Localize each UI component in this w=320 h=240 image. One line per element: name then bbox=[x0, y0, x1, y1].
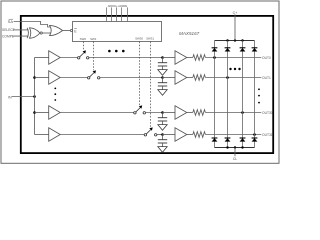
clamp rail bottom bbox=[215, 147, 255, 149]
junction hold cap row4 bbox=[161, 133, 164, 136]
resistor R2 bbox=[187, 75, 261, 81]
hold capacitor C1 bbox=[158, 58, 167, 70]
wire switch to hold cap row2 bbox=[100, 77, 163, 79]
buffer B2 bbox=[175, 71, 187, 85]
wire switch to hold cap row4 bbox=[157, 134, 163, 136]
wire C+ tap bbox=[234, 14, 236, 40]
wire cap to buffer B3 bbox=[163, 112, 176, 114]
svg-text:ADDRA–ADDRE: ADDRA–ADDRE bbox=[108, 4, 128, 8]
wire buffer A1 to switch bbox=[60, 57, 77, 59]
hold capacitor C4 bbox=[158, 135, 167, 147]
junction rail bottom v2 bbox=[226, 146, 228, 148]
wire IN to bus bbox=[12, 96, 35, 98]
clamp column 3 bbox=[242, 41, 244, 148]
junction output row1 bbox=[213, 56, 216, 59]
clamp column 1 bbox=[214, 41, 216, 148]
pin E label bbox=[74, 29, 77, 34]
resistor R1 bbox=[187, 55, 261, 61]
svg-text:C+: C+ bbox=[233, 11, 238, 15]
wire CL tap bbox=[234, 148, 236, 157]
wire bus to buffer A1 bbox=[35, 57, 49, 59]
diode D1 top bbox=[212, 48, 218, 52]
clamp column 4 bbox=[254, 41, 256, 148]
svg-text:OUT0: OUT0 bbox=[262, 56, 271, 60]
inverter bubble at box enable bbox=[70, 29, 72, 31]
wire cap to buffer B2 bbox=[163, 77, 176, 79]
svg-text:OUT31: OUT31 bbox=[262, 133, 273, 137]
wire buffer A4 to switch bbox=[60, 134, 144, 136]
buffer A4 bbox=[49, 128, 61, 142]
page frame bbox=[1, 1, 279, 163]
junction IN bus bbox=[33, 95, 36, 98]
junction output row2 bbox=[226, 76, 229, 79]
junction output row4 bbox=[253, 133, 256, 136]
svg-text:IN: IN bbox=[8, 95, 12, 99]
buffer B1 bbox=[175, 51, 187, 65]
wire input bus bbox=[34, 58, 36, 135]
xnor gate U1 bbox=[27, 28, 42, 38]
buffer A2 bbox=[49, 71, 61, 85]
switch SW31 bbox=[144, 127, 157, 136]
wire address lines bbox=[107, 7, 128, 21]
diode D7 bottom bbox=[240, 138, 246, 142]
svg-text:SW30: SW30 bbox=[135, 37, 143, 41]
junction rail top v3 bbox=[241, 39, 243, 41]
svg-text:SW1: SW1 bbox=[90, 37, 97, 41]
wire buffer A3 to switch bbox=[60, 112, 133, 114]
svg-text:OUT30: OUT30 bbox=[262, 111, 273, 115]
diode D8 bottom bbox=[252, 138, 258, 142]
wire XNOR out to OR bbox=[42, 32, 50, 34]
ground row1 bbox=[158, 70, 167, 76]
wire bus to buffer A4 bbox=[35, 134, 49, 136]
wire buffer A2 to switch bbox=[60, 77, 87, 79]
wire COMPL to XNOR bbox=[12, 35, 28, 37]
svg-text:SW31: SW31 bbox=[146, 37, 154, 41]
clamp column 2 bbox=[227, 41, 229, 148]
svg-text:SW0: SW0 bbox=[80, 37, 87, 41]
svg-text:OUT1: OUT1 bbox=[262, 76, 271, 80]
dashed control SW1 bbox=[93, 42, 95, 71]
diode D6 bottom bbox=[225, 138, 231, 142]
wire switch to hold cap row1 bbox=[89, 57, 163, 59]
buffer A1 bbox=[49, 51, 61, 65]
junction hold cap row1 bbox=[161, 56, 164, 59]
junction bus row3 bbox=[33, 111, 36, 114]
buffer A3 bbox=[49, 106, 61, 120]
hold capacitor C3 bbox=[158, 113, 167, 125]
ground row2 bbox=[158, 90, 167, 96]
dashed control SW0 bbox=[83, 42, 85, 51]
wire SELECT to XNOR bbox=[13, 29, 29, 31]
wire cap to buffer B1 bbox=[163, 57, 176, 59]
junction rail bottom tap bbox=[234, 146, 236, 148]
ellipsis input channels bbox=[54, 88, 56, 101]
junction output row3 bbox=[241, 111, 244, 114]
decoder latch box bbox=[73, 22, 162, 42]
switch SW30 bbox=[134, 105, 146, 114]
ellipsis switch array bbox=[108, 50, 125, 53]
dashed control SW30 bbox=[139, 42, 141, 106]
junction rail bottom v3 bbox=[241, 146, 243, 148]
node SA label bbox=[8, 19, 14, 24]
junction rail top tap bbox=[234, 39, 236, 41]
switch SW0 bbox=[78, 50, 89, 59]
junction bus row2 bbox=[33, 76, 36, 79]
diode D4 top bbox=[252, 48, 258, 52]
resistor R4 bbox=[187, 132, 261, 138]
diode D2 top bbox=[225, 48, 231, 52]
clamp rail top bbox=[215, 40, 255, 42]
wire bus to buffer A2 bbox=[35, 77, 49, 79]
junction hold cap row3 bbox=[161, 111, 164, 114]
svg-text:MAX5167: MAX5167 bbox=[179, 31, 200, 36]
ellipsis outputs bbox=[258, 88, 260, 103]
junction rail top v2 bbox=[226, 39, 228, 41]
wire bus to buffer A3 bbox=[35, 112, 49, 114]
diode D3 top bbox=[240, 48, 246, 52]
svg-text:COMPL: COMPL bbox=[2, 34, 14, 38]
switch SW1 bbox=[88, 70, 100, 79]
wire SA to OR gate bbox=[14, 22, 51, 28]
svg-text:CL: CL bbox=[233, 157, 238, 161]
buffer B3 bbox=[175, 106, 187, 120]
svg-text:SA: SA bbox=[8, 19, 14, 24]
wire OR out to latch box bbox=[63, 30, 71, 32]
ground row3 bbox=[158, 125, 167, 131]
buffer B4 bbox=[175, 128, 187, 142]
or gate U2 bbox=[50, 25, 63, 35]
wire cap to buffer B4 bbox=[163, 134, 176, 136]
IC boundary bbox=[21, 16, 273, 153]
ground row4 bbox=[158, 147, 167, 153]
diode D5 bottom bbox=[212, 138, 218, 142]
hold capacitor C2 bbox=[158, 78, 167, 90]
resistor R3 bbox=[187, 110, 261, 116]
dashed control SW31 bbox=[150, 42, 152, 128]
wire switch to hold cap row3 bbox=[146, 112, 163, 114]
junction hold cap row2 bbox=[161, 76, 164, 79]
ellipsis clamp columns bbox=[229, 68, 240, 70]
